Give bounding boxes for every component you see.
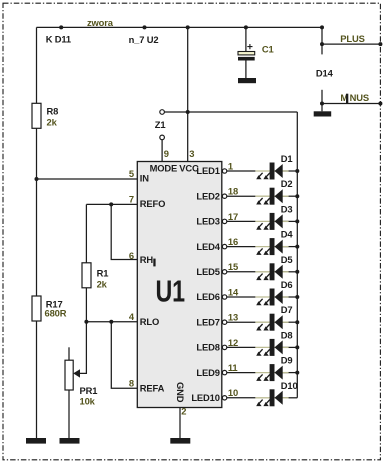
wire LED D3 to anode bus <box>283 220 298 222</box>
svg-text:8: 8 <box>129 378 134 389</box>
svg-text:10k: 10k <box>80 395 96 406</box>
ground symbol pin 2 <box>170 438 190 444</box>
wire U1 pin 16 to LED D4 <box>227 246 256 248</box>
junction D8 anode on bus <box>295 345 299 349</box>
svg-text:11: 11 <box>228 362 238 373</box>
svg-text:U1: U1 <box>156 274 186 309</box>
pin circle LED4 on U1 <box>222 244 226 248</box>
wire left vertical from top net to R8 <box>36 27 38 103</box>
LED D7 <box>255 314 288 331</box>
wire LED anode bus vertical <box>296 112 298 398</box>
svg-text:17: 17 <box>228 211 238 222</box>
wire pin 4 RLO to U1 <box>86 321 137 323</box>
wire U1 pin 14 to LED D6 <box>227 296 256 298</box>
wire LED D2 to anode bus <box>283 195 298 197</box>
svg-text:NUS: NUS <box>350 92 369 103</box>
wire U1 pin 15 to LED D5 <box>227 271 256 273</box>
svg-text:LED1: LED1 <box>196 165 219 176</box>
svg-text:D14: D14 <box>316 68 334 79</box>
PR1 wiper arrowhead <box>73 369 80 377</box>
node n_7 U2 junction <box>143 25 147 29</box>
svg-text:3: 3 <box>189 148 194 159</box>
svg-text:C1: C1 <box>262 43 274 54</box>
ground symbol MINUS <box>314 111 332 116</box>
wire LED D7 to anode bus <box>283 321 298 323</box>
svg-text:D7: D7 <box>281 304 293 315</box>
svg-text:12: 12 <box>228 337 238 348</box>
junction D3 anode on bus <box>295 219 299 223</box>
pin circle LED2 on U1 <box>222 194 226 198</box>
wire RLO node down to PR1 wiper <box>79 322 87 374</box>
svg-text:R1: R1 <box>97 268 109 279</box>
terminal dot MINUS <box>378 102 382 106</box>
svg-text:D4: D4 <box>281 229 294 240</box>
wire U1 pin 18 to LED D2 <box>227 195 256 197</box>
wire from top net corner down to PLUS node <box>321 27 323 44</box>
junction D2 anode on bus <box>295 194 299 198</box>
wire U1 pin 12 to LED D8 <box>227 346 256 348</box>
svg-text:REFO: REFO <box>140 198 165 209</box>
wire Z1 net to LED anode bus <box>165 111 298 113</box>
LED D4 <box>255 238 288 255</box>
svg-text:RH: RH <box>140 254 154 265</box>
LED D10 <box>255 389 288 406</box>
wire LED D6 to anode bus <box>283 296 298 298</box>
svg-text:D2: D2 <box>281 178 293 189</box>
svg-text:5: 5 <box>129 168 134 179</box>
pin circle LED10 on U1 <box>222 396 226 400</box>
terminal dot PLUS <box>378 42 382 46</box>
LED D2 <box>255 188 288 205</box>
svg-text:LED3: LED3 <box>196 216 219 227</box>
svg-text:D6: D6 <box>281 279 293 290</box>
svg-text:D3: D3 <box>281 203 293 214</box>
svg-text:18: 18 <box>228 186 238 197</box>
pin circle LED9 on U1 <box>222 370 226 374</box>
pin name RHI <box>140 254 156 267</box>
svg-text:LED2: LED2 <box>196 190 219 201</box>
wire U1 pin 1 to LED D1 <box>227 170 256 172</box>
svg-text:LED9: LED9 <box>196 367 219 378</box>
wire top net down to C1 <box>245 27 247 51</box>
junction D5 anode on bus <box>295 270 299 274</box>
LED D1 <box>255 163 288 180</box>
LED D3 <box>255 213 288 230</box>
wire top supply net (zwora) horizontal <box>37 26 323 28</box>
svg-text:PLUS: PLUS <box>340 33 364 44</box>
junction D1 anode on bus <box>295 169 299 173</box>
svg-text:K D11: K D11 <box>46 34 71 45</box>
wire PLUS terminal line <box>322 43 380 45</box>
svg-text:2k: 2k <box>97 279 108 290</box>
junction D4 anode on bus <box>295 245 299 249</box>
svg-text:REFA: REFA <box>140 382 165 393</box>
svg-text:9: 9 <box>164 148 169 159</box>
junction C1 branch on top net <box>244 25 248 29</box>
wire IN node down to R17 <box>36 179 38 296</box>
svg-text:15: 15 <box>228 261 238 272</box>
svg-text:D10: D10 <box>281 380 298 391</box>
svg-text:6: 6 <box>129 250 134 261</box>
svg-text:LED10: LED10 <box>191 392 219 403</box>
pin circle LED6 on U1 <box>222 295 226 299</box>
wire MODE pin 9 to U1 <box>161 140 163 162</box>
wire C1 to ground <box>245 61 247 79</box>
svg-text:7: 7 <box>129 194 134 205</box>
svg-text:13: 13 <box>228 312 238 323</box>
junction D7 anode on bus <box>295 320 299 324</box>
LED D5 <box>255 263 288 280</box>
svg-text:16: 16 <box>228 236 238 247</box>
junction on RLO wire <box>109 320 113 324</box>
pin circle LED8 on U1 <box>222 345 226 349</box>
svg-text:2k: 2k <box>47 117 58 128</box>
svg-text:zwora: zwora <box>87 17 114 28</box>
wire pin 7 REFO to U1 <box>86 203 137 205</box>
junction PLUS node <box>320 42 324 46</box>
wire RLO junction down to REFA <box>111 322 137 389</box>
op-amp/driver IC U1 body <box>137 162 222 408</box>
wire LED D1 to anode bus <box>283 170 298 172</box>
svg-text:D1: D1 <box>281 153 293 164</box>
wire VCC pin 3 vertical from top net to U1 <box>187 27 189 161</box>
wire R1 bottom to RLO node <box>85 288 87 322</box>
wire REFO junction down to RHI <box>111 204 137 259</box>
junction VCC branch on top net <box>186 25 190 29</box>
svg-text:LED4: LED4 <box>196 241 220 252</box>
node K D11 junction <box>59 25 63 29</box>
junction on REFO wire <box>109 202 113 206</box>
ground symbol C1 <box>238 78 256 83</box>
wire D14 anode stub <box>321 44 323 54</box>
wire U1 pin 11 to LED D9 <box>227 372 256 374</box>
svg-text:D8: D8 <box>281 329 293 340</box>
wire LED D9 to anode bus <box>283 372 298 374</box>
wire MINUS terminal line <box>322 103 380 105</box>
svg-text:GND: GND <box>175 382 186 403</box>
svg-text:RLO: RLO <box>140 316 159 327</box>
pin circle LED1 on U1 <box>222 169 226 173</box>
ground symbol PR1 <box>60 438 80 444</box>
wire GND pin 2 from U1 to ground <box>179 408 181 439</box>
jumper Z1 top pad <box>160 110 165 115</box>
svg-text:14: 14 <box>228 286 239 297</box>
capacitor C1 polarized <box>238 44 255 61</box>
wire LED D10 to anode bus <box>283 397 298 399</box>
svg-text:LED5: LED5 <box>196 266 219 277</box>
potentiometer PR1 body <box>65 360 73 390</box>
junction MINUS node <box>320 102 324 106</box>
junction IN node <box>35 177 39 181</box>
svg-text:LED7: LED7 <box>196 316 219 327</box>
resistor R8 <box>32 103 41 128</box>
svg-text:2: 2 <box>181 406 186 417</box>
net label MINUS <box>340 92 369 103</box>
svg-text:D9: D9 <box>281 355 293 366</box>
wire LED D8 to anode bus <box>283 346 298 348</box>
svg-text:10: 10 <box>228 387 238 398</box>
wire PR1 bottom to ground <box>68 390 70 438</box>
wire R17 bottom to ground <box>36 321 38 438</box>
ground symbol left <box>26 438 46 444</box>
svg-text:R8: R8 <box>47 106 59 117</box>
LED D8 <box>255 339 288 356</box>
junction Z1 net crossing VCC wire <box>186 110 190 114</box>
junction R1-RLO-wiper node <box>84 320 88 324</box>
resistor R17 <box>32 296 41 321</box>
svg-text:Z1: Z1 <box>155 119 166 130</box>
wire U1 pin 13 to LED D7 <box>227 321 256 323</box>
pin circle LED3 on U1 <box>222 219 226 223</box>
wire U1 pin 10 to LED D10 <box>227 397 256 399</box>
junction D9 anode on bus <box>295 371 299 375</box>
LED D6 <box>255 289 288 306</box>
wire LED D5 to anode bus <box>283 271 298 273</box>
svg-text:LED6: LED6 <box>196 291 219 302</box>
wire pin 5 IN to U1 <box>37 178 138 180</box>
svg-text:1: 1 <box>228 160 233 171</box>
jumper Z1 bottom pad <box>160 135 165 140</box>
resistor R1 <box>82 263 91 288</box>
svg-text:D5: D5 <box>281 254 293 265</box>
wire REFO left end down to R1 <box>85 204 87 262</box>
svg-text:LED8: LED8 <box>196 342 219 353</box>
wire LED D4 to anode bus <box>283 246 298 248</box>
pin circle LED5 on U1 <box>222 270 226 274</box>
wire PR1 top stub <box>68 347 70 360</box>
junction top-right corner to PLUS <box>320 25 324 29</box>
svg-text:IN: IN <box>140 173 149 184</box>
wire R8 bottom to IN node <box>36 128 38 179</box>
LED D9 <box>255 364 288 381</box>
wire D14 cathode stub <box>321 90 323 104</box>
svg-text:MODE: MODE <box>150 162 178 173</box>
svg-text:680R: 680R <box>45 308 67 319</box>
junction D6 anode on bus <box>295 295 299 299</box>
svg-text:n_7 U2: n_7 U2 <box>129 34 159 45</box>
pin circle LED7 on U1 <box>222 320 226 324</box>
wire MINUS node to ground <box>321 104 323 112</box>
wire U1 pin 17 to LED D3 <box>227 220 256 222</box>
